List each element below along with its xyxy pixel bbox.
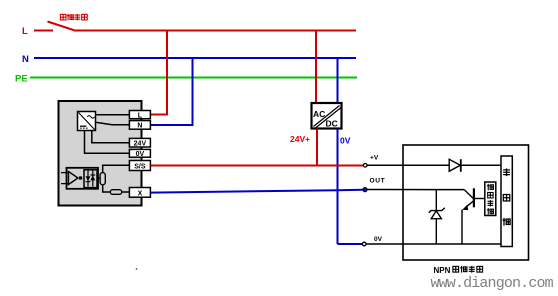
AC/DC converter U2 [312, 103, 342, 129]
svg-text:L: L [138, 112, 143, 119]
wire N drop to AC/DC converter [337, 58, 339, 103]
svg-text:L: L [22, 26, 28, 37]
svg-text:OUT: OUT [370, 178, 386, 185]
wire opto output [98, 177, 103, 179]
wire 0V drop [337, 129, 339, 245]
label "过流保护" (overcurrent protection) [60, 14, 87, 21]
resistor R1 vertical [100, 173, 105, 185]
svg-text:www.diangon.com: www.diangon.com [431, 275, 554, 292]
terminal 0V circle [362, 242, 366, 246]
terminal N [129, 121, 150, 130]
svg-text:AC: AC [313, 109, 325, 119]
main circuit box 主电路 [501, 156, 512, 247]
terminal S/S [129, 161, 150, 171]
wire 0V internal rail [366, 243, 501, 245]
wire L drop to PLC L terminal [151, 31, 168, 115]
wire supply 24V output [92, 131, 130, 143]
switch S1 overcurrent breaker blade [48, 22, 75, 31]
terminal X [129, 188, 150, 198]
sensor enclosure box [403, 145, 529, 260]
wire L lead-in [34, 30, 53, 32]
internal power supply symbol [78, 112, 96, 131]
label NPN型传感器 [434, 266, 483, 275]
svg-text:24V+: 24V+ [290, 134, 310, 144]
svg-text:NPN: NPN [434, 266, 451, 275]
svg-text:0V: 0V [374, 236, 383, 243]
wire +V internal [367, 164, 501, 166]
wire OUT internal [367, 189, 464, 191]
terminal L [129, 111, 150, 120]
wire supply to N terminal [96, 122, 130, 125]
wire S/S internal [103, 165, 130, 172]
svg-text:0V: 0V [340, 136, 351, 146]
zener diode Z1 [429, 190, 445, 244]
wire S/S to +V (24V supply) [150, 165, 363, 167]
terminal 24V [129, 138, 150, 147]
optocoupler U1 [61, 168, 98, 189]
svg-text:PE: PE [15, 74, 28, 85]
terminal +V circle [363, 164, 367, 168]
PLC main unit box [59, 101, 142, 206]
stray dot mark [136, 268, 138, 270]
wire X internal [103, 185, 130, 192]
terminal 0V [129, 149, 150, 158]
svg-text:+V: +V [370, 154, 379, 161]
wire 0V to sensor [338, 243, 363, 245]
svg-text:X: X [138, 190, 143, 197]
wire X to OUT [150, 190, 363, 193]
wire N drop to PLC N terminal [151, 58, 193, 125]
protection circuit box 保护电路 [485, 182, 496, 216]
diode D1 [449, 159, 461, 172]
svg-text:N: N [22, 54, 29, 65]
svg-text:DC: DC [326, 119, 338, 129]
wire N neutral rail [34, 57, 356, 59]
wire supply 0V output [85, 131, 130, 154]
svg-text:0V: 0V [136, 151, 145, 158]
wire PE earth rail [30, 77, 357, 79]
terminal OUT circle [363, 188, 367, 192]
wire 24V+ drop [316, 129, 318, 166]
svg-text:24V: 24V [134, 141, 147, 148]
resistor R2 horizontal [110, 190, 122, 195]
svg-text:N: N [137, 123, 142, 130]
wire L phase rail [74, 30, 357, 32]
wire L drop to AC/DC converter [315, 31, 317, 104]
wire supply to L terminal [96, 114, 130, 116]
svg-text:S/S: S/S [134, 163, 146, 170]
transistor Q1 [462, 188, 485, 244]
